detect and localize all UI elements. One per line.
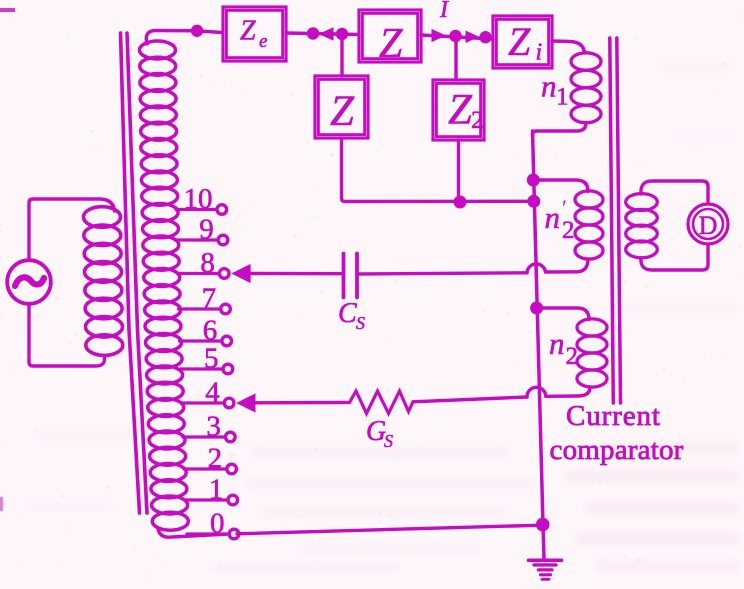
svg-text:3: 3 — [206, 411, 221, 443]
svg-text:Z: Z — [240, 16, 256, 47]
svg-text:n: n — [541, 69, 557, 104]
svg-text:I: I — [439, 0, 449, 23]
svg-text:0: 0 — [210, 508, 225, 540]
svg-text:1: 1 — [209, 474, 224, 506]
svg-text:Z: Z — [330, 88, 355, 135]
svg-text:S: S — [384, 431, 393, 451]
svg-text:Z: Z — [508, 19, 531, 64]
svg-text:C: C — [338, 298, 357, 329]
svg-text:5: 5 — [204, 343, 219, 375]
svg-text:8: 8 — [200, 247, 215, 279]
svg-text:i: i — [536, 40, 543, 66]
svg-text:e: e — [259, 31, 267, 52]
svg-text:2: 2 — [566, 343, 579, 370]
svg-text:Z: Z — [379, 21, 403, 67]
svg-text:n: n — [545, 200, 561, 235]
svg-text:Z: Z — [448, 87, 473, 134]
svg-text:n: n — [549, 326, 565, 361]
svg-text:4: 4 — [205, 377, 220, 409]
svg-text:S: S — [356, 313, 365, 333]
svg-text:2: 2 — [208, 443, 223, 475]
svg-text:Current: Current — [566, 400, 661, 432]
svg-text:2: 2 — [562, 217, 575, 244]
svg-text:1: 1 — [556, 84, 569, 111]
svg-text:comparator: comparator — [550, 434, 684, 466]
svg-text:9: 9 — [199, 214, 214, 246]
svg-text:2: 2 — [471, 107, 484, 134]
svg-text:7: 7 — [202, 283, 217, 315]
svg-text:10: 10 — [184, 183, 213, 215]
svg-text:D: D — [699, 211, 718, 240]
